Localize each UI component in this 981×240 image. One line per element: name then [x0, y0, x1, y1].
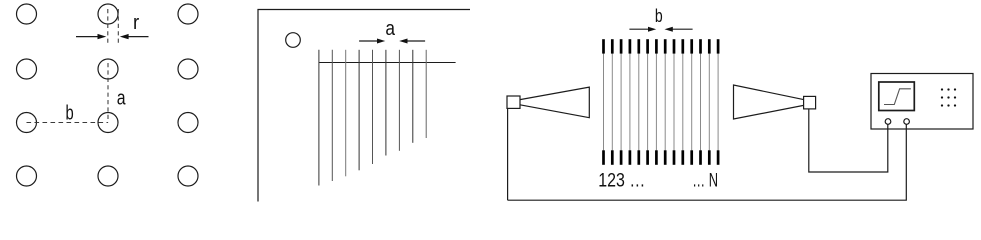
wire 7 of measured array (with end caps) [655, 39, 657, 165]
oscilloscope speaker grille dot r3c1 [941, 104, 943, 106]
unit-cell circle row2 col3 (wire cross-section) [178, 59, 198, 79]
unit-cell circle row1 col2 (wire cross-section) [98, 4, 118, 24]
wire 6 of sample array [385, 50, 387, 156]
svg-text:a: a [117, 88, 126, 110]
wire 9 of measured array (with end caps) [673, 39, 675, 165]
oscilloscope speaker grille dot r1c2 [947, 88, 949, 90]
svg-text:b: b [66, 102, 74, 124]
oscilloscope connector port 2 [904, 119, 910, 125]
wire 5 of measured array (with end caps) [638, 39, 640, 165]
unit-cell circle row4 col3 (wire cross-section) [178, 166, 198, 186]
wire 8 of measured array (with end caps) [664, 39, 666, 165]
svg-text:123 …: 123 … [598, 169, 645, 191]
node r-dimension: dashed line at wire edge [117, 9, 119, 46]
wire 1 of sample array [318, 50, 320, 186]
wire 10 of measured array (with end caps) [682, 39, 684, 165]
wire b-dimension right arrow [665, 27, 693, 32]
wire 5 of sample array [372, 50, 374, 164]
wire bottom cable run to instrument [508, 124, 907, 200]
wire r-dimension right arrow [120, 34, 149, 39]
wire b-dimension left arrow [629, 27, 656, 32]
node r-dimension: dashed line at wire center [107, 9, 109, 46]
node a-dimension: dashed vertical line between rows [107, 63, 109, 123]
node sample plate corner frame [258, 10, 470, 202]
wire r-dimension left arrow [76, 34, 106, 39]
unit-cell circle row4 col1 (wire cross-section) [17, 166, 37, 186]
wire 3 of measured array (with end caps) [620, 39, 622, 165]
oscilloscope screen [879, 82, 915, 111]
wire from receive antenna to instrument input [809, 109, 888, 172]
oscilloscope speaker grille dot r2c1 [941, 96, 943, 98]
unit-cell circle row1 col1 (wire cross-section) [17, 4, 37, 24]
unit-cell circle row1 col3 (wire cross-section) [178, 4, 198, 24]
wire 4 of measured array (with end caps) [629, 39, 631, 165]
oscilloscope / network analyzer box U1 [871, 74, 973, 130]
node mounting hole circle [286, 33, 301, 48]
wire from transmit antenna down [507, 108, 509, 200]
transmit horn antenna triangle [520, 87, 589, 118]
wire a-dimension left arrow (sample) [359, 39, 385, 44]
wire 3 of sample array [345, 50, 347, 177]
wire 9 of sample array [425, 50, 427, 138]
node b-dimension: dashed horizontal line between columns [27, 122, 109, 124]
wire 12 of measured array (with end caps) [700, 39, 702, 165]
oscilloscope speaker grille dot r2c3 [954, 96, 956, 98]
unit-cell circle row3 col1 (wire cross-section) [17, 113, 37, 133]
transmit antenna waveguide feed square [507, 96, 520, 108]
receive antenna waveguide feed square [804, 96, 816, 109]
wire 2 of sample array [331, 50, 333, 181]
oscilloscope speaker grille dot r3c2 [947, 104, 949, 106]
svg-text:a: a [385, 18, 395, 40]
receive horn antenna triangle [734, 85, 804, 119]
wire 4 of sample array [358, 50, 360, 171]
wire 14 of measured array (with end caps) [717, 39, 719, 165]
wire 11 of measured array (with end caps) [691, 39, 693, 165]
wire 8 of sample array [412, 50, 414, 143]
oscilloscope speaker grille dot r3c3 [954, 104, 956, 106]
oscilloscope speaker grille dot r1c3 [954, 88, 956, 90]
unit-cell circle row3 col2 (wire cross-section) [98, 113, 118, 133]
svg-text:b: b [655, 6, 663, 26]
unit-cell circle row2 col2 (wire cross-section) [98, 59, 118, 79]
svg-text:r: r [133, 12, 140, 34]
oscilloscope speaker grille dot r1c1 [941, 88, 943, 90]
unit-cell circle row2 col1 (wire cross-section) [17, 59, 37, 79]
wire 6 of measured array (with end caps) [647, 39, 649, 165]
unit-cell circle row4 col2 (wire cross-section) [98, 166, 118, 186]
oscilloscope screen step-response trace [884, 89, 911, 105]
wire 2 of measured array (with end caps) [611, 39, 613, 165]
wire 7 of sample array [398, 50, 400, 151]
unit-cell circle row3 col3 (wire cross-section) [178, 113, 198, 133]
wire a-dimension right arrow (sample) [399, 39, 425, 44]
svg-text:… N: … N [692, 169, 718, 191]
wire 13 of measured array (with end caps) [708, 39, 710, 165]
wire 1 of measured array (with end caps) [603, 39, 605, 165]
node plate top edge line [319, 62, 456, 64]
oscilloscope connector port 1 [885, 119, 891, 125]
oscilloscope speaker grille dot r2c2 [947, 96, 949, 98]
